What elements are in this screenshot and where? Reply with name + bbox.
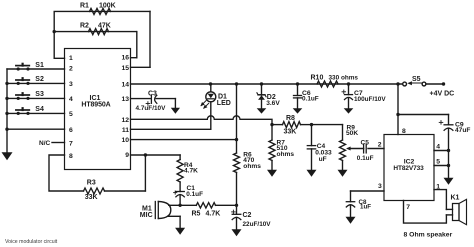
svg-text:1uF: 1uF [360,204,371,211]
svg-text:0.1uF: 0.1uF [357,155,374,162]
svg-text:3.6V: 3.6V [266,100,280,107]
svg-text:9: 9 [125,152,129,159]
svg-text:12: 12 [121,117,129,124]
svg-text:HT82V733: HT82V733 [393,165,424,172]
svg-text:MIC: MIC [140,212,153,219]
svg-text:S4: S4 [35,106,44,113]
svg-text:R8: R8 [286,115,295,122]
svg-text:13: 13 [121,96,129,103]
svg-text:R5: R5 [192,211,201,218]
svg-text:4.7K: 4.7K [184,168,198,175]
svg-text:HT8950A: HT8950A [81,102,110,109]
svg-text:8: 8 [402,128,406,135]
svg-text:ohms: ohms [243,163,261,170]
svg-text:Voice modulator circuit: Voice modulator circuit [5,239,58,245]
svg-text:11: 11 [122,127,129,134]
svg-text:14: 14 [121,82,129,89]
svg-text:4.7K: 4.7K [206,211,221,218]
svg-text:330 ohms: 330 ohms [329,74,359,81]
svg-text:4.7uF/10V: 4.7uF/10V [136,105,167,112]
svg-text:5: 5 [436,159,440,166]
svg-text:15: 15 [121,65,129,72]
svg-text:7: 7 [69,140,73,147]
svg-text:2: 2 [69,66,73,73]
svg-text:S2: S2 [35,76,44,83]
svg-text:N/C: N/C [39,140,51,147]
svg-text:S1: S1 [35,62,44,69]
svg-text:7: 7 [406,204,410,211]
svg-text:ohms: ohms [277,151,295,158]
svg-text:33K: 33K [284,128,297,135]
svg-text:1: 1 [436,183,440,190]
svg-text:22uF/10V: 22uF/10V [243,221,272,228]
svg-text:+4V DC: +4V DC [430,90,455,97]
svg-text:4: 4 [436,144,440,151]
svg-text:R1: R1 [80,2,89,9]
svg-text:S5: S5 [412,76,421,83]
svg-text:8 Ohm speaker: 8 Ohm speaker [404,232,453,239]
svg-text:6: 6 [69,127,73,134]
svg-text:10: 10 [121,137,129,144]
svg-text:uF: uF [319,156,327,163]
svg-text:100K: 100K [99,2,116,9]
svg-text:0.1uF: 0.1uF [302,95,319,102]
svg-text:LED: LED [217,100,231,107]
svg-text:0.1uF: 0.1uF [186,191,203,198]
svg-text:K1: K1 [451,195,460,202]
svg-text:100uF/10V: 100uF/10V [354,96,386,103]
svg-text:1: 1 [69,55,73,62]
svg-text:R10: R10 [311,74,324,81]
svg-text:47K: 47K [98,23,111,30]
svg-text:C2: C2 [243,212,252,219]
svg-text:C3: C3 [148,91,157,98]
svg-text:47uF: 47uF [455,127,470,134]
svg-text:3: 3 [69,81,73,88]
svg-text:4: 4 [69,96,73,103]
svg-text:C5: C5 [361,139,370,146]
svg-text:S3: S3 [35,91,44,98]
svg-text:16: 16 [121,55,129,62]
svg-text:33K: 33K [85,194,98,201]
svg-text:2: 2 [378,141,382,148]
svg-text:3: 3 [378,183,382,190]
svg-text:R2: R2 [80,23,89,30]
svg-text:50K: 50K [346,130,358,137]
svg-text:R3: R3 [87,180,96,187]
svg-text:8: 8 [69,153,73,160]
svg-text:5: 5 [69,111,73,118]
